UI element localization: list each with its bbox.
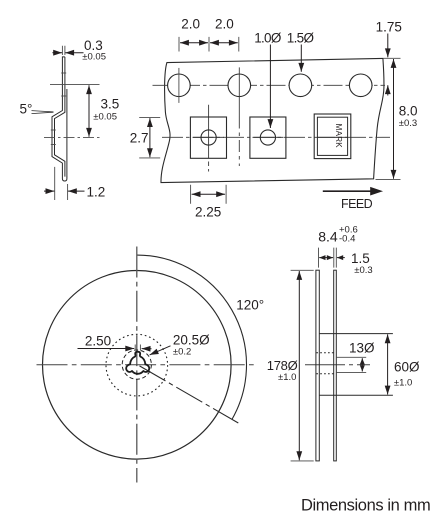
svg-text:120°: 120° bbox=[236, 298, 264, 313]
svg-text:13Ø: 13Ø bbox=[349, 341, 375, 356]
sprocket hole 1 bbox=[168, 74, 191, 97]
horizontal centreline bbox=[37, 364, 255, 366]
8.0 bottom extension line bbox=[376, 178, 401, 180]
svg-text:1.0Ø: 1.0Ø bbox=[254, 31, 282, 46]
hub top line bbox=[319, 333, 393, 335]
right flange bbox=[334, 270, 337, 461]
dim 8.4 arrows bbox=[319, 257, 326, 259]
dim 2.0 second span bbox=[210, 42, 238, 44]
hub bottom line bbox=[319, 394, 393, 396]
svg-text:2.25: 2.25 bbox=[195, 205, 221, 220]
svg-text:1.5Ø: 1.5Ø bbox=[287, 31, 315, 46]
dashed hub hole circle bbox=[122, 350, 151, 379]
reel outer circle 178 dia bbox=[43, 271, 232, 460]
svg-text:8.4: 8.4 bbox=[318, 229, 338, 245]
svg-text:2.7: 2.7 bbox=[130, 130, 149, 145]
svg-text:FEED: FEED bbox=[341, 197, 373, 211]
pocket hole edge tick upper bbox=[51, 129, 56, 131]
sprocket hole 3 bbox=[289, 74, 312, 97]
svg-text:±0.3: ±0.3 bbox=[354, 265, 372, 276]
sprocket hole edge tick upper bbox=[61, 72, 66, 74]
pocket 1 circle bbox=[201, 130, 216, 145]
dotted circle 20.5 dia bbox=[106, 334, 168, 396]
dim 8.0 vertical line bbox=[393, 59, 395, 179]
8.0 top extension line bbox=[384, 57, 401, 59]
svg-text:60Ø: 60Ø bbox=[394, 360, 420, 375]
dim 2.0 extension lines bbox=[179, 37, 239, 52]
sprocket hole 4 bbox=[349, 74, 372, 97]
hole 1 vertical crosshair bbox=[178, 68, 180, 103]
solid chords of hole row centreline bbox=[167, 84, 373, 86]
radial 120 degree boundary line bbox=[140, 366, 239, 423]
svg-text:1.2: 1.2 bbox=[87, 185, 106, 200]
dim 1.2 left arrow bbox=[44, 190, 54, 192]
dim 1.75 upper arrow bbox=[387, 34, 389, 58]
svg-text:1.5: 1.5 bbox=[351, 251, 370, 266]
dim 2.0 first span bbox=[180, 42, 208, 44]
dim 60 vertical line bbox=[387, 334, 389, 394]
sprocket hole 2 bbox=[228, 74, 251, 97]
hub hole dotted line upper bbox=[316, 352, 335, 354]
svg-text:1.75: 1.75 bbox=[376, 20, 402, 35]
dim 8.4 extension lines bbox=[319, 248, 337, 268]
dim 2.7 vertical line bbox=[149, 118, 151, 157]
leader 1.5 to sprocket hole bbox=[300, 45, 302, 72]
svg-text:2.0: 2.0 bbox=[215, 16, 234, 31]
hub key hole shape bbox=[126, 352, 149, 374]
leader 20.5 arrow bbox=[150, 346, 171, 355]
tape back profile line bbox=[66, 89, 68, 177]
svg-text:8.0: 8.0 bbox=[399, 104, 418, 119]
dim 2.7 extension lines bbox=[139, 117, 160, 157]
svg-text:±0.3: ±0.3 bbox=[399, 118, 417, 129]
pocket 1 vertical centreline bbox=[208, 105, 210, 172]
svg-text:-0.4: -0.4 bbox=[339, 234, 355, 245]
pocket centreline / 3.5 bottom extension bbox=[44, 136, 100, 138]
pocket 2 circle bbox=[260, 130, 275, 145]
svg-text:3.5: 3.5 bbox=[101, 97, 120, 112]
pocket hole edge tick lower bbox=[51, 144, 56, 146]
svg-text:5°: 5° bbox=[20, 102, 33, 117]
svg-text:2.0: 2.0 bbox=[181, 16, 200, 31]
dim 178 vertical line bbox=[298, 271, 300, 460]
FEED arrow bbox=[323, 190, 371, 192]
dim 3.5 vertical dimension line bbox=[88, 85, 90, 137]
svg-text:±1.0: ±1.0 bbox=[394, 378, 412, 389]
sprocket hole edge tick lower bbox=[61, 95, 66, 97]
svg-text:±0.2: ±0.2 bbox=[173, 347, 191, 358]
svg-text:2.50: 2.50 bbox=[85, 334, 111, 349]
svg-text:178Ø: 178Ø bbox=[267, 358, 298, 373]
dim 1.75 lower arrow bbox=[387, 85, 389, 95]
pocket 2 square bbox=[250, 117, 286, 158]
svg-text:Dimensions in mm: Dimensions in mm bbox=[301, 497, 430, 515]
hub hole dotted line lower bbox=[316, 373, 335, 375]
vertical centreline bbox=[136, 247, 138, 483]
svg-text:20.5Ø: 20.5Ø bbox=[173, 332, 210, 347]
left flange bbox=[316, 270, 319, 461]
120 degree arc bbox=[137, 255, 247, 420]
dim 1.5 arrow bbox=[337, 257, 345, 259]
dim 2.50 extension lines bbox=[135, 345, 140, 351]
pocket 1 square bbox=[190, 117, 226, 158]
pocket row centreline bbox=[162, 136, 390, 138]
tape strip outer contour bbox=[52, 57, 67, 181]
side view centreline bbox=[305, 364, 370, 366]
sprocket hole row centreline bbox=[153, 84, 386, 86]
svg-text:±0.05: ±0.05 bbox=[82, 52, 106, 63]
dim 13 arrows bbox=[361, 358, 363, 365]
dim 1.2 extension lines bbox=[55, 167, 68, 200]
svg-text:±0.05: ±0.05 bbox=[93, 112, 117, 123]
MARK pocket inner square bbox=[317, 117, 347, 155]
hole 2 vertical centreline bbox=[238, 67, 240, 116]
MARK pocket outer square bbox=[314, 114, 351, 159]
dim 0.3 extension lines bbox=[62, 46, 65, 55]
5 degree leader wedge bbox=[32, 111, 54, 114]
dim 2.25 line bbox=[192, 193, 226, 195]
leader 1.0 to pocket circle bbox=[269, 45, 271, 129]
svg-text:MARK: MARK bbox=[334, 124, 343, 149]
svg-text:±1.0: ±1.0 bbox=[278, 372, 296, 383]
dim 1.2 right arrow bbox=[68, 190, 85, 192]
dim 0.3 left arrow bbox=[52, 52, 62, 54]
dim 178 extension lines bbox=[291, 270, 314, 461]
dim 2.50 leader left arrow bbox=[78, 348, 135, 350]
dim 2.25 extension lines bbox=[191, 185, 227, 204]
solid chords of pocket row centreline bbox=[193, 136, 348, 138]
dim 0.3 right arrow bbox=[65, 52, 83, 54]
hole centreline / 3.5 top extension bbox=[50, 84, 100, 86]
dim 13 extension lines bbox=[336, 357, 366, 372]
tape outline with torn wavy ends bbox=[161, 58, 384, 182]
tape strip inner contour bbox=[55, 57, 65, 177]
dim 2.50 right arrow bbox=[142, 348, 152, 350]
